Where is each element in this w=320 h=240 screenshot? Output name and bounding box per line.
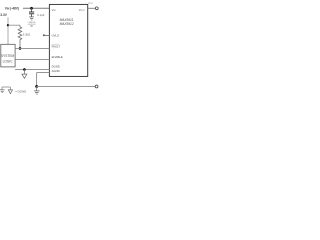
svg-text:VOUT: VOUT bbox=[88, 2, 93, 5]
capacitor C1 0.1uF bbox=[31, 8, 33, 12]
IC U1 MAX5911/MAX5912 hot-swap controller bbox=[49, 4, 87, 76]
wire branch to resistor bbox=[8, 24, 20, 26]
wire AGND down to rail bbox=[36, 73, 38, 87]
svg-text:AGND: AGND bbox=[52, 69, 60, 73]
wire AGND line bbox=[37, 72, 50, 74]
node junction dot DGND bbox=[23, 68, 26, 71]
svg-text:DGND: DGND bbox=[52, 65, 60, 69]
wire to DGND triangle bbox=[23, 69, 25, 74]
svg-text:ENABLE: ENABLE bbox=[52, 55, 63, 59]
svg-text:UVLO: UVLO bbox=[52, 33, 60, 37]
wire DGND line bbox=[15, 68, 49, 70]
ground DGND triangle bbox=[22, 74, 27, 78]
wire bottom rail bbox=[37, 85, 96, 87]
resistor R1 3.3k bbox=[18, 25, 22, 48]
svg-text:= DGND: = DGND bbox=[15, 89, 26, 93]
svg-text:3.3kΩ: 3.3kΩ bbox=[23, 33, 30, 37]
ground legend earth symbol bbox=[2, 86, 10, 88]
node output terminal circle bbox=[95, 7, 98, 10]
SYSTEM LOGIC box bbox=[1, 44, 15, 67]
svg-text:SYSTEM: SYSTEM bbox=[1, 54, 14, 58]
ground legend DGND triangle bbox=[8, 90, 12, 94]
ground earth under capacitor bbox=[29, 16, 34, 18]
node junction dot on top rail bbox=[30, 7, 33, 10]
node bottom terminal circle bbox=[95, 85, 98, 88]
wire top rail VIN to IC bbox=[23, 7, 49, 9]
wire UVLO stub bbox=[44, 34, 50, 36]
ground earth below bottom rail bbox=[36, 86, 38, 90]
node junction dot bottom rail bbox=[35, 85, 38, 88]
svg-text:MAX5912: MAX5912 bbox=[60, 22, 74, 26]
svg-text:VIN (-48V): VIN (-48V) bbox=[5, 6, 19, 10]
wire legend down bbox=[9, 87, 11, 90]
node junction dot 3.3V branch bbox=[7, 24, 9, 26]
wire VOUT to terminal bbox=[88, 7, 96, 9]
node junction dot resistor to FAULT wire bbox=[19, 47, 22, 50]
wire ENABLE line bbox=[15, 58, 49, 60]
svg-text:LOGIC: LOGIC bbox=[3, 60, 14, 64]
wire 3.3V vertical bbox=[7, 17, 9, 44]
svg-text:0.1µF: 0.1µF bbox=[37, 13, 44, 17]
wire FAULT line bbox=[15, 47, 49, 49]
svg-text:3.3V: 3.3V bbox=[0, 13, 7, 17]
svg-text:FAULT: FAULT bbox=[52, 45, 61, 49]
